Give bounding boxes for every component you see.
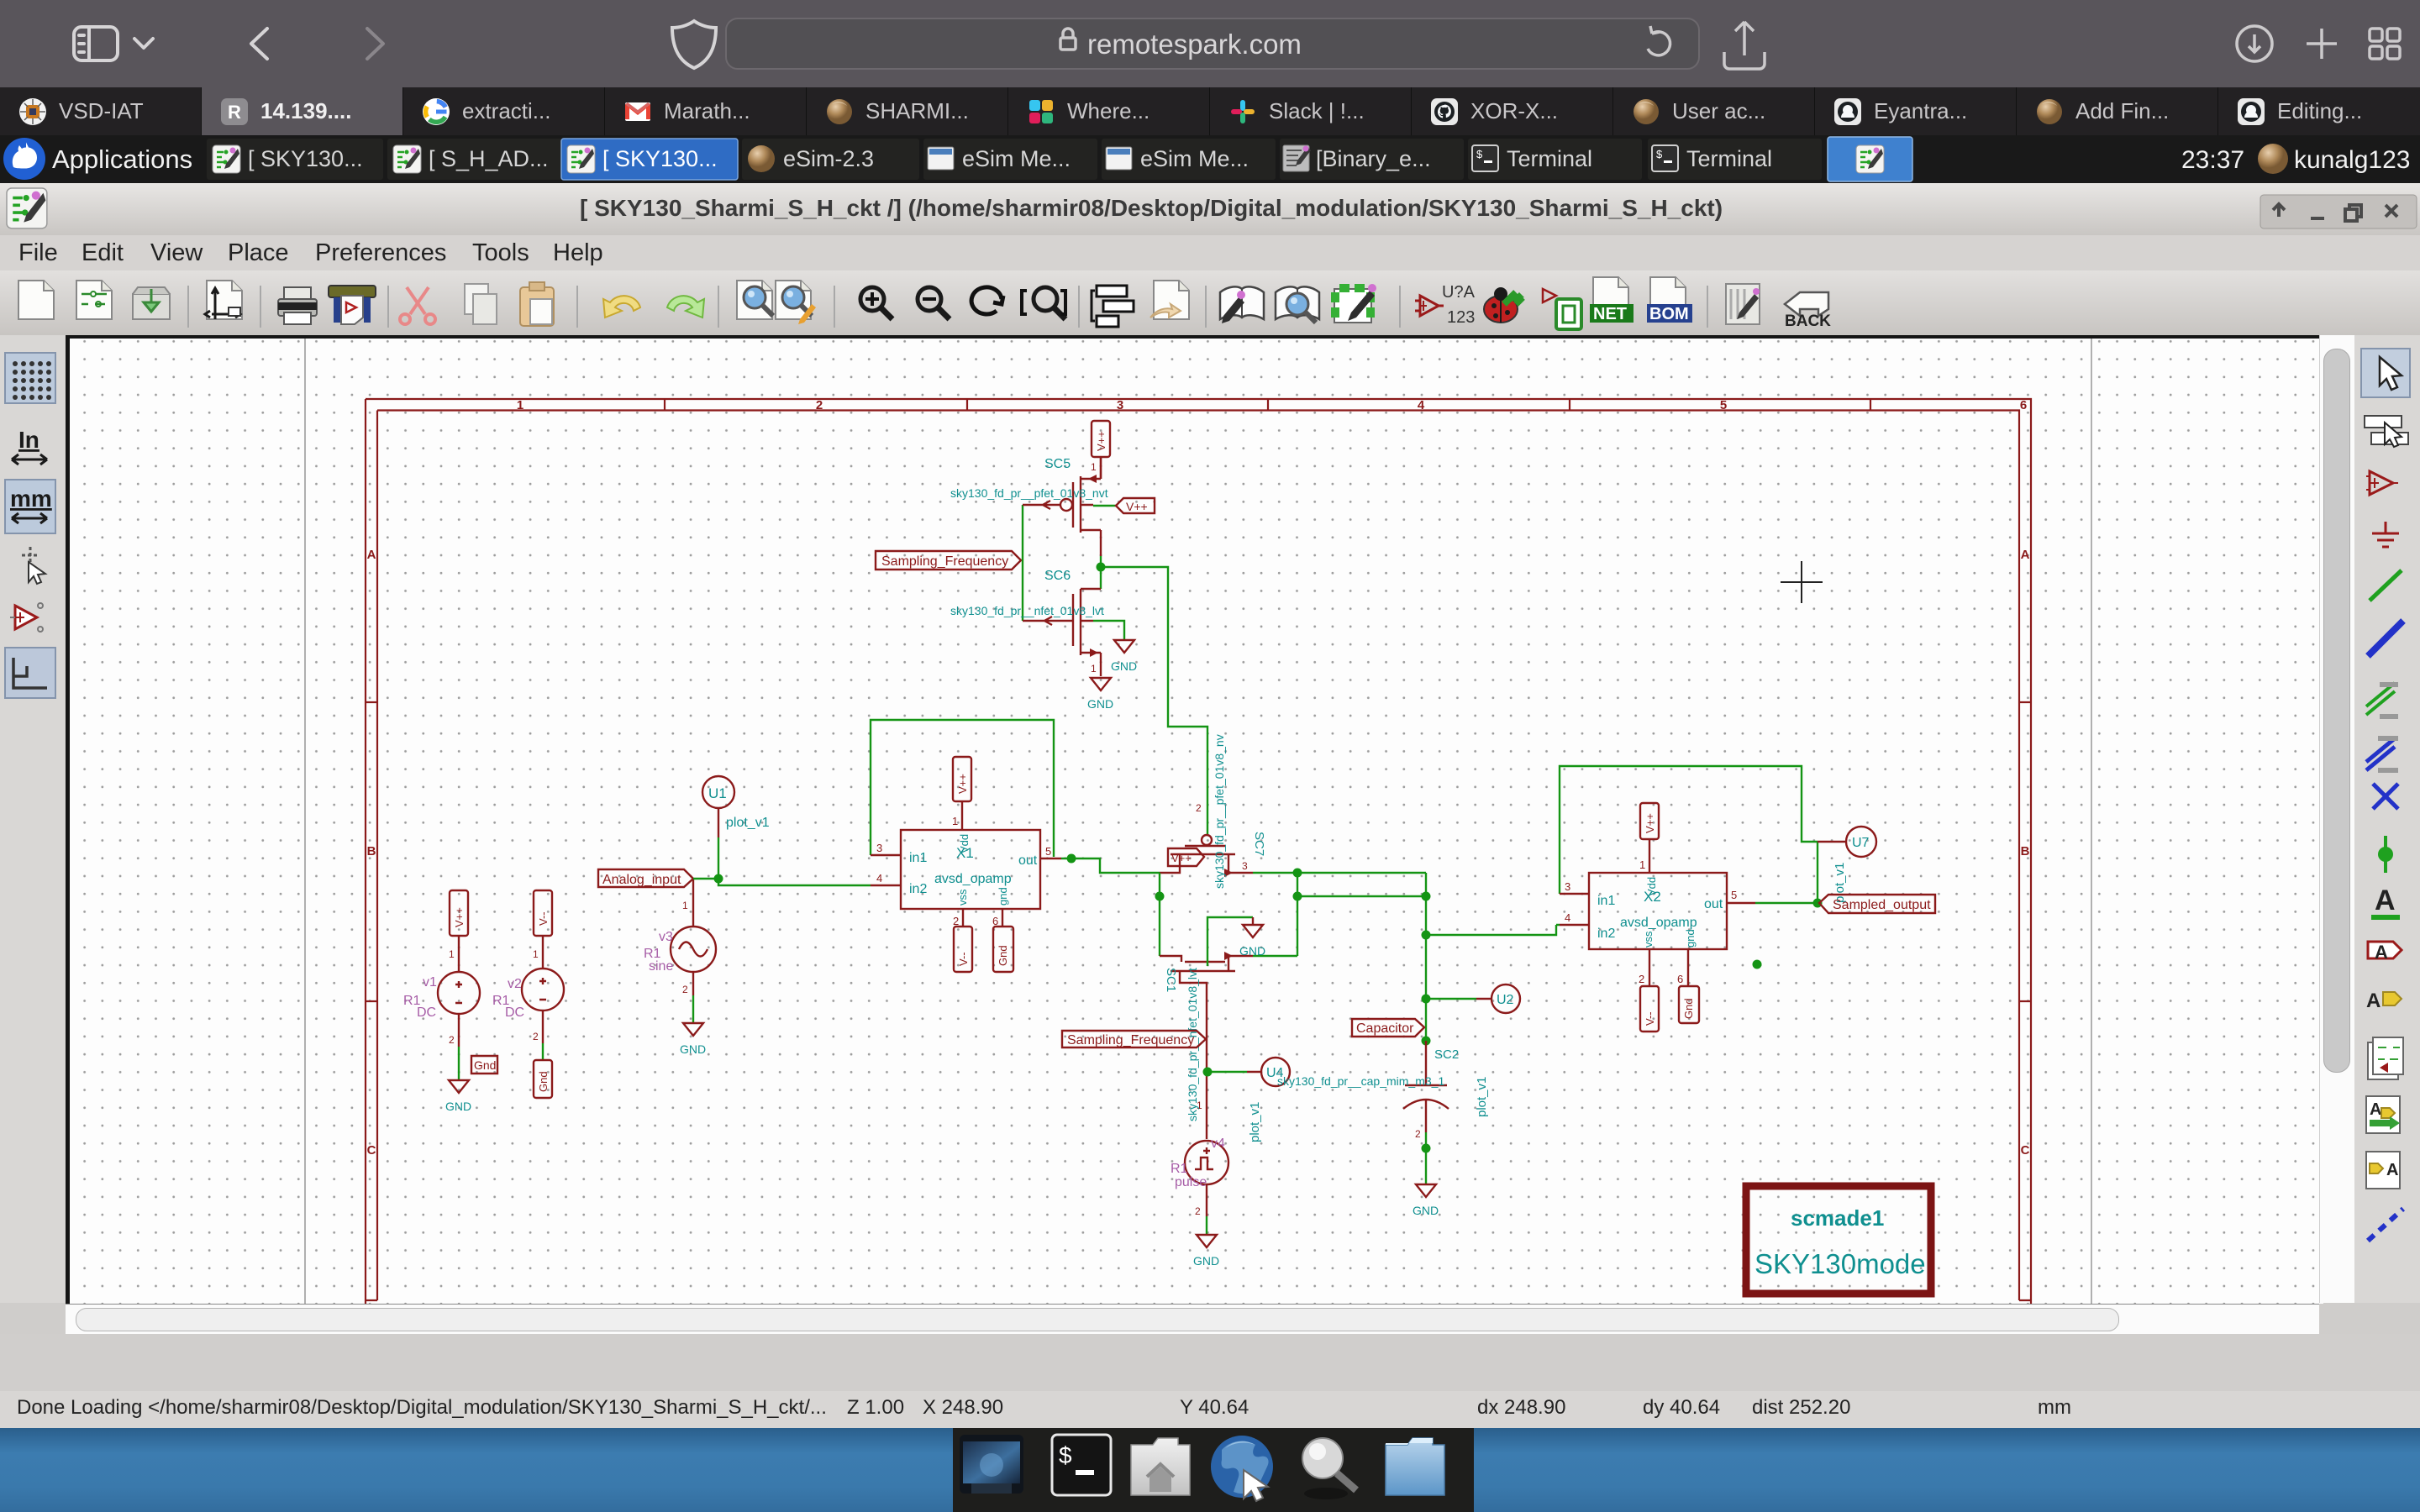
svg-text:GND: GND [680, 1042, 706, 1056]
wire clock node (SC5 drain to SC6 drain, branch to SC7 gate) [1097, 556, 1208, 797]
svg-text:123: 123 [1447, 308, 1475, 327]
svg-text:2: 2 [682, 984, 688, 995]
svg-text:1: 1 [517, 398, 523, 412]
svg-text:Terminal: Terminal [1686, 146, 1772, 171]
frame column numbers [517, 398, 2027, 412]
svg-text:B: B [2021, 844, 2030, 858]
global label Sampling_Frequency (top) [876, 551, 1021, 570]
svg-text:2: 2 [953, 915, 959, 927]
svg-text:A: A [2370, 1100, 2381, 1119]
svg-text:v2: v2 [508, 977, 522, 991]
svg-text:in2: in2 [909, 882, 927, 896]
svg-text:V++: V++ [956, 774, 969, 794]
voltage source v3 (sine) [644, 879, 716, 1023]
svg-text:5: 5 [1731, 889, 1737, 901]
global label Sampled_output [1819, 895, 1935, 913]
ground GND (v4) [1193, 1235, 1219, 1268]
svg-text:U?A: U?A [1442, 283, 1476, 302]
svg-text:A: A [2375, 885, 2396, 916]
svg-text:A: A [2375, 942, 2388, 963]
svg-text:5: 5 [1720, 398, 1727, 412]
svg-text:U7: U7 [1852, 836, 1870, 850]
svg-text:1: 1 [952, 815, 958, 827]
power flag V++ (V1) [449, 890, 468, 972]
svg-text:scmade1: scmade1 [1791, 1205, 1884, 1231]
ground GND (SC6 source) [1087, 663, 1113, 711]
svg-text:Terminal: Terminal [1507, 146, 1592, 171]
svg-text:remotespark.com: remotespark.com [1087, 29, 1302, 60]
wire X1 in1 feedback loop [871, 720, 1054, 857]
globe + cursor [1211, 1436, 1273, 1501]
svg-text:SC5: SC5 [1044, 457, 1071, 471]
svg-text:1: 1 [449, 948, 455, 960]
capacitor SC2 sky130_fd_pr__cap_mim_m3_1 [1277, 995, 1459, 1185]
svg-text:Capacitor: Capacitor [1356, 1021, 1414, 1036]
svg-text:V++: V++ [1095, 431, 1107, 451]
svg-text:A: A [2021, 548, 2030, 562]
power flag Gnd (X1) [993, 927, 1013, 972]
svg-text:3: 3 [1242, 860, 1248, 872]
transistor SC6 sky130_fd_pr__nfet_01v8_lvt [1023, 569, 1101, 676]
transistor SC5 gate pin [1023, 501, 1060, 509]
svg-text:V++: V++ [453, 907, 466, 927]
svg-text:1: 1 [1639, 858, 1645, 871]
svg-text:in2: in2 [1597, 927, 1615, 941]
svg-text:2: 2 [1639, 973, 1644, 985]
junction (stray dot) [1753, 960, 1762, 969]
transistor SC7 sky130_fd_pr__pfet_01v8_nvt (pass) [1160, 797, 1266, 877]
svg-text:sky130_fd_pr__cap_mim_m3_1: sky130_fd_pr__cap_mim_m3_1 [1277, 1074, 1444, 1088]
svg-text:2: 2 [1196, 802, 1202, 814]
annotation U4 plot_v1 [1203, 1058, 1291, 1142]
sheet frame inner border [366, 411, 2031, 1301]
voltage source V2 [492, 969, 564, 1043]
annotation U7 plot_v1 [1818, 827, 1876, 903]
power label V++ (SC7 body) [1168, 848, 1204, 866]
svg-text:NET: NET [1593, 305, 1627, 323]
svg-text:GND: GND [1087, 697, 1113, 711]
wire X1 out [1061, 854, 1160, 874]
svg-text:gnd: gnd [1684, 929, 1697, 948]
svg-text:out: out [1018, 853, 1038, 868]
svg-text:V--: V-- [537, 911, 550, 926]
svg-text:U2: U2 [1497, 993, 1514, 1007]
svg-text:U1: U1 [708, 785, 727, 801]
svg-text:GND: GND [1239, 944, 1265, 958]
power flag Gnd (V2, vertical) [534, 1043, 552, 1098]
svg-text:Analog_input: Analog_input [602, 873, 681, 887]
svg-text:Vdd: Vdd [958, 834, 971, 853]
browser top bar [0, 0, 2420, 87]
op-amp X1 avsd_opamp [901, 801, 1061, 927]
svg-text:23:37: 23:37 [2181, 146, 2244, 174]
svg-text:4: 4 [1565, 911, 1570, 924]
svg-text:[ SKY130...: [ SKY130... [248, 146, 363, 171]
cursor crosshair [1781, 561, 1823, 603]
svg-text:V++: V++ [1644, 813, 1656, 833]
wire X2 out [1755, 902, 1819, 904]
power flag V++ (top of SC5) [1091, 421, 1110, 479]
svg-text:kunalg123: kunalg123 [2294, 146, 2410, 174]
op-amp X2 avsd_opamp [1589, 839, 1755, 986]
svg-text:4: 4 [1418, 398, 1425, 412]
svg-text:Gnd: Gnd [537, 1071, 550, 1092]
svg-text:GND: GND [445, 1100, 471, 1113]
svg-text:Sampling_Frequency: Sampling_Frequency [1067, 1033, 1194, 1047]
wire X2 in2 [1426, 925, 1560, 935]
svg-text:SC6: SC6 [1044, 569, 1071, 583]
svg-text:out: out [1704, 897, 1723, 911]
power flag V-- (X2) [1640, 986, 1659, 1032]
svg-text:In: In [18, 427, 39, 453]
svg-text:6: 6 [1677, 973, 1683, 985]
svg-text:plot_v1: plot_v1 [1475, 1077, 1489, 1117]
sheet annotation box scmade1 / SKY130mode [1746, 1186, 1931, 1294]
frame row letters [367, 548, 2030, 1158]
global label Analog_input [598, 869, 693, 887]
global label Sampling_Frequency (bottom) [1062, 1031, 1206, 1047]
svg-text:BOM: BOM [1649, 305, 1689, 323]
svg-text:1: 1 [533, 948, 539, 960]
monitor [960, 1435, 1023, 1494]
annotation U2 plot_v1 [1426, 984, 1520, 1117]
frame row ticks [366, 702, 2031, 1001]
svg-text:2: 2 [1415, 1128, 1421, 1140]
svg-text:$: $ [1059, 1442, 1072, 1468]
svg-text:3: 3 [1117, 398, 1123, 412]
power flag Gnd (X2) [1679, 986, 1699, 1023]
ground GND (SC2) [1413, 1184, 1439, 1217]
wire analog input node [693, 837, 901, 885]
svg-text:v1: v1 [423, 975, 437, 990]
svg-text:Gnd: Gnd [997, 945, 1009, 966]
wire X2 in1 feedback loop [1560, 766, 1823, 908]
svg-text:BACK: BACK [1785, 312, 1831, 330]
svg-text:GND: GND [1111, 659, 1137, 673]
svg-text:GND: GND [1193, 1254, 1219, 1268]
svg-text:6: 6 [992, 915, 998, 927]
svg-text:sky130_fd_pr__pfet_01v8_nv: sky130_fd_pr__pfet_01v8_nv [1213, 734, 1226, 889]
ground GND (SC1 body) [1239, 917, 1265, 958]
svg-text:avsd_opamp: avsd_opamp [934, 872, 1012, 886]
svg-text:B: B [367, 844, 376, 858]
svg-text:3: 3 [876, 842, 882, 854]
svg-text:pulse: pulse [1175, 1175, 1207, 1189]
wire V1 to ground [458, 1047, 460, 1080]
svg-text:4: 4 [876, 872, 882, 885]
svg-text:[ SKY130...: [ SKY130... [602, 146, 718, 171]
svg-text:[Binary_e...: [Binary_e... [1316, 146, 1431, 171]
annotation U1 plot_v1 [702, 776, 770, 837]
svg-text:eSim-2.3: eSim-2.3 [783, 146, 874, 171]
ground GND (v3) [680, 1023, 706, 1056]
wire SC1 gate [1155, 873, 1165, 956]
svg-text:gnd: gnd [997, 887, 1009, 906]
svg-text:sine: sine [649, 959, 673, 974]
svg-text:plot_v1: plot_v1 [1833, 863, 1847, 903]
power flag V-- (X1) [954, 927, 972, 972]
voltage source v4 (pulse) [1171, 1137, 1228, 1235]
svg-text:R: R [228, 102, 241, 123]
folder blue [1386, 1438, 1444, 1495]
svg-text:[ S_H_AD...: [ S_H_AD... [429, 146, 549, 171]
power flag V++ (X2) [1640, 803, 1659, 839]
svg-text:avsd_opamp: avsd_opamp [1620, 916, 1697, 930]
wire SC1 body to ground [1207, 917, 1253, 966]
svg-text:Vdd: Vdd [1645, 877, 1658, 896]
pin X2 in2 [1560, 911, 1589, 925]
svg-text:eSim Me...: eSim Me... [1140, 146, 1249, 171]
terminal [1052, 1435, 1111, 1495]
global label Capacitor [1352, 1019, 1424, 1037]
svg-text:V++: V++ [1126, 500, 1148, 513]
svg-text:mm: mm [10, 486, 52, 512]
svg-text:SKY130mode: SKY130mode [1754, 1248, 1926, 1279]
svg-text:in1: in1 [1597, 894, 1615, 908]
sheet frame outer border [366, 399, 2031, 1304]
wire SC6 body to ground [1093, 621, 1124, 640]
svg-text:DC: DC [417, 1005, 436, 1020]
svg-text:GND: GND [1413, 1204, 1439, 1217]
svg-text:SC1: SC1 [1164, 968, 1178, 992]
svg-text:Sampling_Frequency: Sampling_Frequency [881, 554, 1008, 569]
svg-text:Applications: Applications [52, 144, 192, 174]
svg-text:3: 3 [1565, 880, 1570, 893]
svg-text:v4: v4 [1211, 1137, 1225, 1151]
ground GND (SC6 body) [1111, 640, 1137, 673]
svg-text:R1: R1 [1171, 1162, 1188, 1176]
power flag V++ (X1) [953, 757, 971, 801]
svg-text:in1: in1 [909, 851, 927, 865]
svg-text:SC2: SC2 [1434, 1047, 1459, 1062]
svg-text:C: C [2021, 1143, 2030, 1158]
svg-text:vss: vss [1642, 931, 1655, 948]
transistor SC1 sky130_fd_pr__nfet_01v8_lvt (pass) [1160, 952, 1253, 1139]
ground GND (V1) [445, 1080, 471, 1113]
frame column ticks [665, 399, 1870, 411]
svg-text:v3: v3 [659, 930, 673, 944]
power flag V-- (V2) [533, 890, 552, 969]
page boundary right [2091, 339, 2092, 1304]
svg-text:2: 2 [533, 1031, 539, 1042]
svg-text:A: A [367, 548, 376, 562]
svg-text:2: 2 [816, 398, 823, 412]
svg-text:eSim Me...: eSim Me... [962, 146, 1071, 171]
svg-text:SC7: SC7 [1252, 832, 1266, 856]
wire gate net SC5/SC6 [1022, 505, 1023, 621]
voltage source V1 [403, 972, 480, 1047]
power label V++ (SC5 body) [1093, 498, 1155, 513]
svg-text:5: 5 [1045, 845, 1051, 858]
svg-text:1: 1 [682, 900, 688, 911]
svg-text:plot_v1: plot_v1 [1248, 1102, 1262, 1142]
svg-text:sky130_fd_pr__pfet_01v8_nvt: sky130_fd_pr__pfet_01v8_nvt [950, 486, 1108, 500]
svg-text:Gnd: Gnd [474, 1058, 496, 1072]
svg-text:V--: V-- [1644, 1011, 1656, 1026]
magnifier [1302, 1438, 1356, 1499]
svg-text:1: 1 [1091, 663, 1097, 675]
svg-text:V--: V-- [957, 952, 970, 966]
svg-text:2: 2 [1195, 1205, 1201, 1217]
wire sample-hold node [1253, 869, 1431, 1000]
svg-text:C: C [367, 1143, 376, 1158]
svg-text:V++: V++ [1171, 852, 1192, 864]
svg-text:A: A [2386, 1161, 2398, 1179]
svg-text:vss: vss [956, 889, 969, 906]
svg-text:plot_v1: plot_v1 [726, 816, 770, 830]
page boundary left [304, 339, 306, 1304]
svg-text:2: 2 [449, 1034, 455, 1046]
transistor SC5 sky130_fd_pr__pfet_01v8_nvt [1044, 457, 1101, 556]
power flag Gnd (V1) [471, 1056, 497, 1074]
svg-text:A: A [2366, 990, 2381, 1012]
svg-text:6: 6 [2020, 398, 2027, 412]
svg-text:Sampled_output: Sampled_output [1833, 898, 1931, 912]
svg-text:Gnd: Gnd [1682, 998, 1695, 1019]
svg-text:sky130_fd_pr__nfet_01v8_lvt: sky130_fd_pr__nfet_01v8_lvt [950, 604, 1104, 617]
folder home [1131, 1438, 1190, 1495]
svg-text:1: 1 [1091, 461, 1097, 473]
svg-text:DC: DC [505, 1005, 524, 1020]
